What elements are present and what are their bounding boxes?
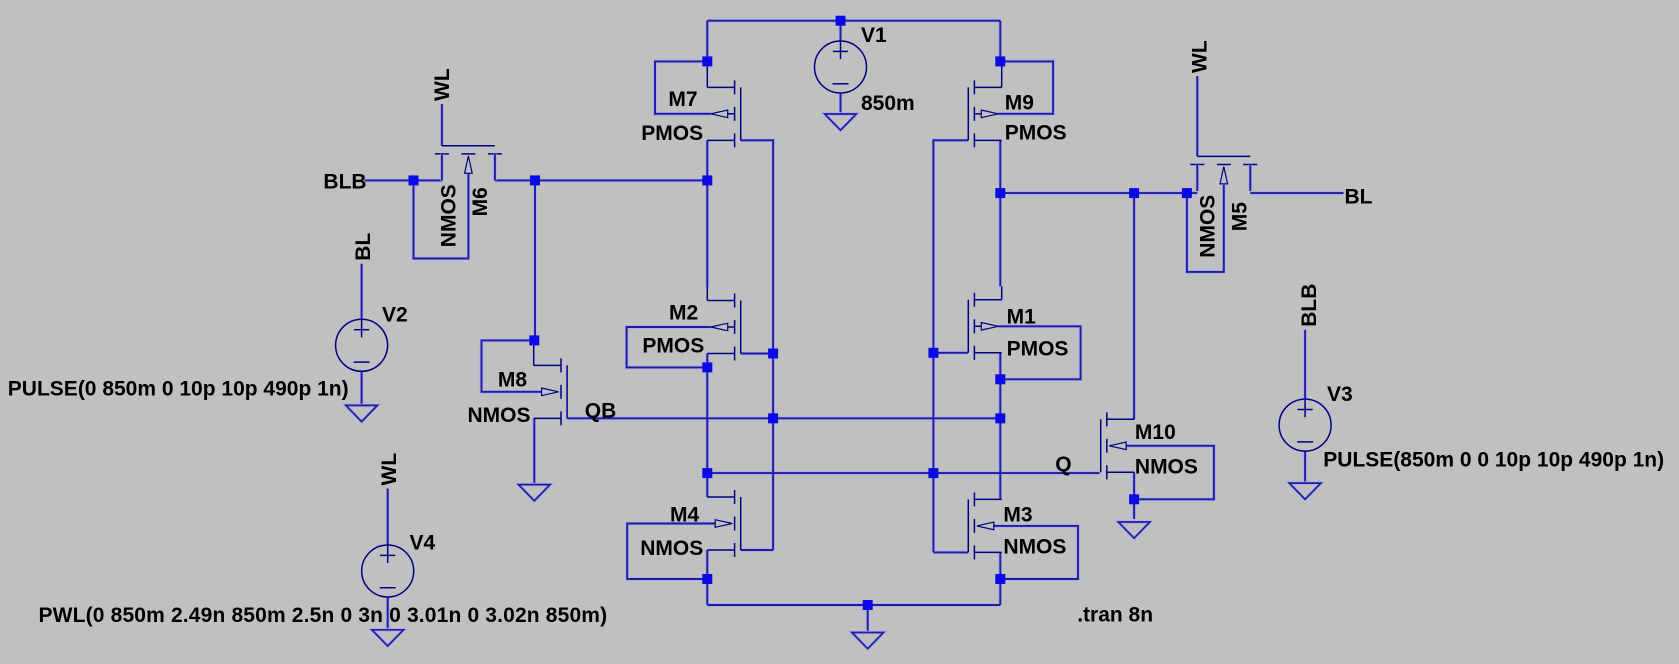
label BLB flag left bbox=[323, 170, 366, 193]
label M8 value bbox=[468, 404, 531, 427]
ground V2 gnd bbox=[346, 405, 378, 421]
svg-text:PMOS: PMOS bbox=[1005, 121, 1067, 144]
node M1 drain node bbox=[995, 374, 1005, 384]
transistor M2 PMOS bbox=[707, 287, 740, 361]
label V1 value bbox=[861, 92, 915, 115]
svg-text:QB: QB bbox=[585, 399, 617, 422]
wire M1 drain down bbox=[999, 353, 1001, 500]
svg-text:M6: M6 bbox=[469, 187, 492, 216]
label WL flag M5 bbox=[1189, 40, 1212, 73]
wire M8 source to ground bbox=[533, 418, 535, 484]
wire right gate net bbox=[933, 140, 968, 552]
label M2 name bbox=[669, 302, 698, 325]
wire bbox=[362, 21, 1344, 632]
wire ground stem bottom rail bbox=[867, 605, 869, 632]
svg-text:M7: M7 bbox=[668, 88, 697, 111]
svg-text:V4: V4 bbox=[410, 532, 436, 555]
wire M1 gate corner bbox=[933, 352, 968, 354]
wire QB net bbox=[567, 417, 1000, 419]
node Q-right gates bbox=[928, 468, 938, 478]
wire M8 drain tap bbox=[534, 180, 536, 340]
wire left gate net bbox=[741, 140, 773, 550]
voltage source V1 bbox=[815, 41, 867, 93]
node M7 gate tap bbox=[702, 56, 712, 66]
wire M6 right to mid node bbox=[495, 179, 707, 181]
wire V2 bottom stem bbox=[361, 371, 363, 406]
label QB flag bbox=[585, 399, 617, 422]
wire VDD drop to M9 bbox=[999, 21, 1001, 62]
label V3 value bbox=[1323, 449, 1664, 472]
transistor M7 PMOS bbox=[707, 61, 740, 148]
svg-text:NMOS: NMOS bbox=[438, 184, 461, 247]
label M10 value bbox=[1135, 455, 1198, 478]
node right mid node bbox=[995, 188, 1005, 198]
svg-text:M2: M2 bbox=[669, 302, 698, 325]
svg-text:NMOS: NMOS bbox=[1197, 195, 1220, 258]
node VDD-V1 bbox=[836, 16, 846, 26]
voltage source V3 bbox=[1279, 399, 1331, 451]
svg-text:PMOS: PMOS bbox=[642, 334, 704, 357]
label BL flag V2 bbox=[352, 233, 375, 261]
wire V4 bottom stem bbox=[387, 597, 389, 630]
ground M10 gnd bbox=[1118, 522, 1150, 538]
node Q-left drain bbox=[702, 468, 712, 478]
transistor M6 NMOS bbox=[435, 146, 502, 181]
svg-text:Q: Q bbox=[1055, 453, 1071, 476]
wire VDD drop to M7 bbox=[706, 21, 708, 62]
wire V2 top stem bbox=[361, 264, 363, 320]
svg-text:M5: M5 bbox=[1229, 202, 1252, 231]
label M6 value bbox=[438, 184, 461, 247]
ground V3 gnd bbox=[1289, 483, 1321, 499]
ground V1 gnd bbox=[825, 114, 857, 130]
label Q flag bbox=[1055, 453, 1071, 476]
wire V3 bottom stem bbox=[1304, 451, 1306, 483]
wire M2 gate corner bbox=[741, 353, 773, 355]
label WL flag M6 bbox=[431, 68, 454, 101]
svg-text:V1: V1 bbox=[861, 24, 887, 47]
label tran directive bbox=[1077, 604, 1153, 627]
label V3 name bbox=[1327, 383, 1353, 406]
label M5 value bbox=[1197, 195, 1220, 258]
wire M7 gate loop bbox=[655, 61, 711, 113]
svg-text:PULSE(850m 0 0 10p 10p 490p 1n: PULSE(850m 0 0 10p 10p 490p 1n) bbox=[1323, 449, 1664, 472]
label M7 value bbox=[641, 122, 703, 145]
wire M4 bulk loop bbox=[627, 524, 715, 580]
node M1 gate net node bbox=[928, 348, 938, 358]
svg-text:M1: M1 bbox=[1007, 305, 1036, 328]
label M5 name bbox=[1229, 202, 1252, 231]
label M2 value bbox=[642, 334, 704, 357]
wire V4 top stem bbox=[387, 489, 389, 546]
transistor M1 PMOS bbox=[968, 286, 1001, 360]
svg-text:PMOS: PMOS bbox=[641, 122, 703, 145]
svg-text:M3: M3 bbox=[1003, 504, 1032, 527]
ground V4 gnd bbox=[372, 630, 404, 646]
svg-text:BL: BL bbox=[352, 233, 375, 261]
ground M8 gnd bbox=[519, 485, 551, 501]
wire right mid node wire bbox=[1000, 192, 1197, 194]
label V2 value bbox=[8, 378, 349, 401]
svg-text:.tran 8n: .tran 8n bbox=[1077, 604, 1153, 627]
node QB-M1 drain bbox=[995, 413, 1005, 423]
wire BL lead right bbox=[1250, 192, 1343, 194]
wire M9 drain to M1 source bbox=[999, 140, 1001, 286]
label V2 name bbox=[382, 304, 408, 327]
label M3 name bbox=[1003, 504, 1032, 527]
label WL flag V4 bbox=[378, 453, 401, 486]
node M8 drain node bbox=[530, 175, 540, 185]
wire V1 top stem bbox=[840, 21, 842, 41]
wire M10 source to ground bbox=[1133, 472, 1135, 519]
label M8 name bbox=[498, 368, 527, 391]
label BLB flag V3 bbox=[1298, 284, 1321, 327]
wire M4 source down to rail bbox=[706, 550, 708, 605]
label M4 name bbox=[670, 504, 699, 527]
transistor M5 NMOS bbox=[1190, 156, 1257, 191]
label M1 value bbox=[1007, 338, 1069, 361]
svg-text:BLB: BLB bbox=[323, 170, 366, 193]
wire M3 bulk loop bbox=[994, 526, 1078, 579]
wire M6 bulk loop bbox=[414, 173, 469, 258]
wire M2 bulk loop bbox=[627, 327, 711, 367]
transistor M3 NMOS bbox=[968, 492, 1001, 559]
wire M9 gate loop bbox=[998, 61, 1053, 113]
label M9 name bbox=[1005, 91, 1034, 114]
svg-text:NMOS: NMOS bbox=[640, 537, 703, 560]
wire M5 bulk loop bbox=[1187, 185, 1224, 272]
svg-text:WL: WL bbox=[378, 453, 401, 486]
svg-text:V2: V2 bbox=[382, 304, 408, 327]
wire V3 top stem bbox=[1304, 330, 1306, 399]
wire BLB lead bbox=[365, 179, 442, 181]
node M5 bulk node bbox=[1182, 188, 1192, 198]
wire M8 gate loop bbox=[482, 340, 542, 391]
node M2 drain node bbox=[702, 362, 712, 372]
svg-text:NMOS: NMOS bbox=[468, 404, 531, 427]
svg-text:PULSE(0 850m 0 10p 10p 490p 1n: PULSE(0 850m 0 10p 10p 490p 1n) bbox=[8, 378, 349, 401]
wire bottom rail bbox=[707, 604, 1000, 606]
svg-text:WL: WL bbox=[1189, 40, 1212, 73]
svg-text:850m: 850m bbox=[861, 92, 915, 115]
svg-text:BLB: BLB bbox=[1298, 284, 1321, 327]
node M2 gate net node bbox=[768, 349, 778, 359]
svg-text:PWL(0 850m 2.49n 850m 2.5n 0 3: PWL(0 850m 2.49n 850m 2.5n 0 3n 0 3.01n … bbox=[39, 604, 608, 627]
wire M5 WL stem bbox=[1196, 76, 1198, 156]
svg-text:M10: M10 bbox=[1135, 421, 1176, 444]
svg-text:V3: V3 bbox=[1327, 383, 1353, 406]
wire M6 WL stem bbox=[441, 104, 443, 146]
label M10 name bbox=[1135, 421, 1176, 444]
wire M1 bulk loop bbox=[998, 326, 1080, 379]
svg-text:WL: WL bbox=[431, 68, 454, 101]
label M3 value bbox=[1003, 535, 1066, 558]
label V4 value bbox=[39, 604, 608, 627]
svg-text:NMOS: NMOS bbox=[1135, 455, 1198, 478]
label M6 name bbox=[469, 187, 492, 216]
wire VDD top rail bbox=[707, 20, 1000, 22]
label BL flag right bbox=[1345, 186, 1373, 209]
voltage source V4 bbox=[362, 545, 414, 597]
wire V1 bottom stem bbox=[840, 93, 842, 114]
node QB-left gates bbox=[768, 413, 778, 423]
wire M2 drain down to Q bbox=[706, 354, 708, 498]
svg-text:PMOS: PMOS bbox=[1007, 338, 1069, 361]
label V4 name bbox=[410, 532, 436, 555]
svg-text:M9: M9 bbox=[1005, 91, 1034, 114]
node M8 gate node bbox=[529, 335, 539, 345]
transistor M10 NMOS bbox=[1101, 412, 1134, 479]
label M4 value bbox=[640, 537, 703, 560]
voltage source V2 bbox=[336, 319, 388, 371]
transistor M8 NMOS bbox=[534, 340, 567, 425]
ground rail gnd bbox=[852, 633, 884, 649]
wire M4 gate corner bbox=[741, 549, 773, 551]
wire M10 bulk loop bbox=[1126, 446, 1214, 500]
node left mid node bbox=[702, 175, 712, 185]
label M9 value bbox=[1005, 121, 1067, 144]
svg-text:M8: M8 bbox=[498, 368, 527, 391]
svg-text:M4: M4 bbox=[670, 504, 699, 527]
label M1 name bbox=[1007, 305, 1036, 328]
transistor M9 PMOS bbox=[968, 61, 1001, 148]
node BLB node bbox=[409, 175, 419, 185]
label V1 name bbox=[861, 24, 887, 47]
transistor M4 NMOS bbox=[707, 490, 740, 557]
node M9 gate tap bbox=[995, 56, 1005, 66]
svg-text:NMOS: NMOS bbox=[1003, 535, 1066, 558]
node M3 source node bbox=[995, 574, 1005, 584]
node M4 source node bbox=[702, 574, 712, 584]
wire M3 source down to rail bbox=[999, 552, 1001, 605]
svg-text:BL: BL bbox=[1345, 186, 1373, 209]
wire M7 drain to M2 source bbox=[706, 140, 708, 287]
wire M10 drain tap bbox=[1133, 193, 1135, 419]
wire Q net bbox=[707, 472, 1099, 474]
node rail ground node bbox=[863, 600, 873, 610]
label M7 name bbox=[668, 88, 697, 111]
node M10 drain node bbox=[1129, 188, 1139, 198]
wire M3 gate corner bbox=[933, 551, 968, 553]
node M10 source node bbox=[1129, 494, 1139, 504]
